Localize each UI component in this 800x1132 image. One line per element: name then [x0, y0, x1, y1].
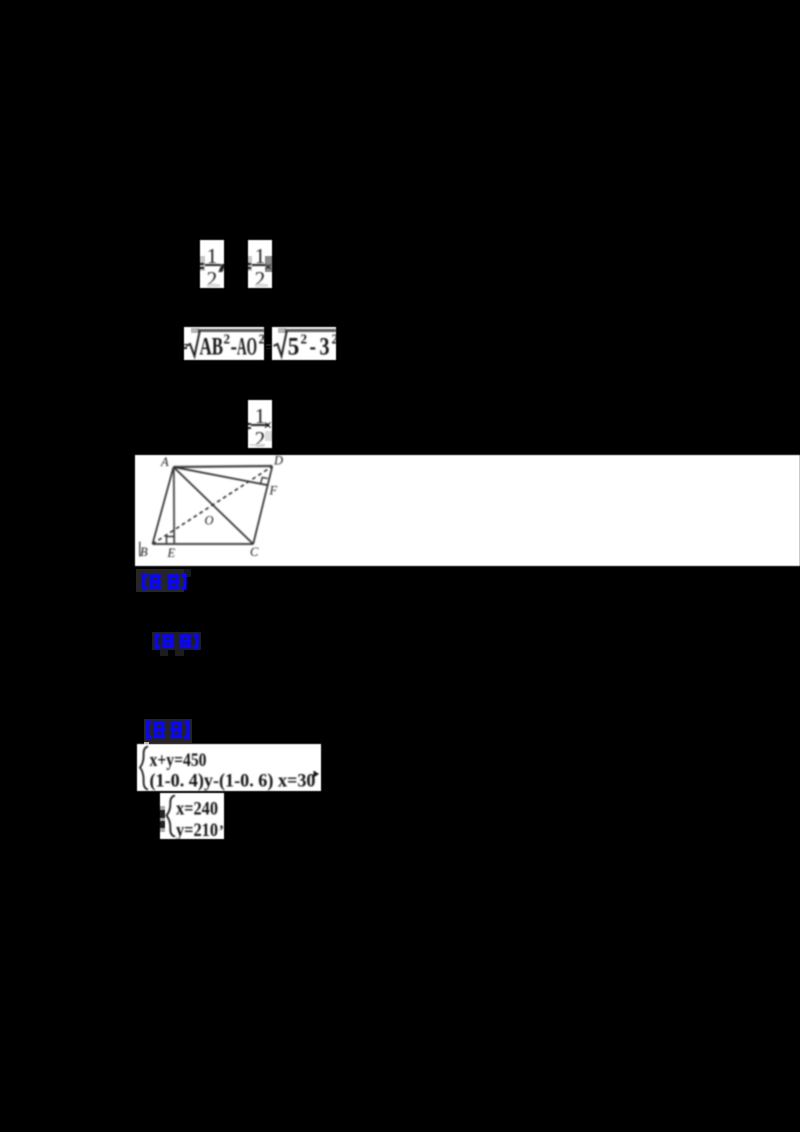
blue heading 2 text 【分析】 — [153, 633, 200, 649]
svg-text:,: , — [220, 815, 224, 832]
equation system image: x+y=450 ; (1-0.4)y-(1-0.6)x=30 — [144, 742, 149, 746]
svg-text:B: B — [140, 545, 148, 559]
svg-text:A: A — [160, 455, 169, 469]
svg-text:x=240: x=240 — [176, 798, 218, 819]
svg-text:-: - — [310, 334, 317, 361]
side AD — [174, 466, 273, 467]
blue heading 1 backdrop — [136, 569, 184, 592]
tick mark left of B — [139, 542, 141, 557]
svg-text:2: 2 — [332, 333, 337, 348]
side AB — [153, 467, 174, 544]
svg-text:3: 3 — [320, 334, 330, 361]
svg-text:y=210: y=210 — [176, 820, 218, 839]
svg-text:AO: AO — [237, 334, 257, 361]
svg-text:AB: AB — [200, 334, 224, 361]
svg-text:5: 5 — [288, 334, 300, 361]
diagonal AC — [174, 467, 254, 544]
blue heading 2 backdrop — [152, 632, 201, 650]
right angle mark at F — [261, 477, 268, 484]
formula image: fraction 1/2 (second) — [248, 240, 272, 288]
formula image: sqrt(5^2-3^2) — [272, 327, 336, 360]
altitude AE — [173, 467, 175, 544]
formula image: fraction 1/2 (third) — [248, 400, 272, 448]
blue heading 1 text 【点评】 — [140, 573, 188, 590]
svg-text:(1-0. 4)y-(1-0. 6) x=30: (1-0. 4)y-(1-0. 6) x=30 — [150, 770, 316, 791]
svg-text:2: 2 — [259, 333, 265, 348]
svg-text:2: 2 — [301, 333, 308, 348]
svg-text:x+y=450: x+y=450 — [150, 750, 207, 771]
svg-text:2: 2 — [224, 333, 231, 348]
diagonal BD dashed — [153, 466, 273, 544]
svg-text:F: F — [269, 484, 278, 498]
right angle mark at E — [167, 537, 175, 545]
svg-text:O: O — [205, 514, 214, 528]
blue heading 3 text 【解答】 — [144, 720, 191, 739]
altitude AF — [174, 467, 268, 485]
figure band: white strip containing parallelogram diagram — [135, 455, 800, 566]
equation system image: x=240 ; y=210 — [160, 793, 224, 839]
faint equals between sqrt images — [266, 344, 271, 346]
formula image: sqrt(AB^2-AO^2) — [184, 327, 264, 360]
svg-text:C: C — [250, 545, 259, 559]
side DC — [253, 466, 272, 544]
side BC — [153, 543, 254, 545]
blue heading 3 backdrop — [144, 719, 192, 743]
svg-text:E: E — [167, 546, 176, 560]
svg-text:D: D — [273, 455, 283, 468]
formula image: fraction 1/2 (first) — [200, 240, 224, 288]
